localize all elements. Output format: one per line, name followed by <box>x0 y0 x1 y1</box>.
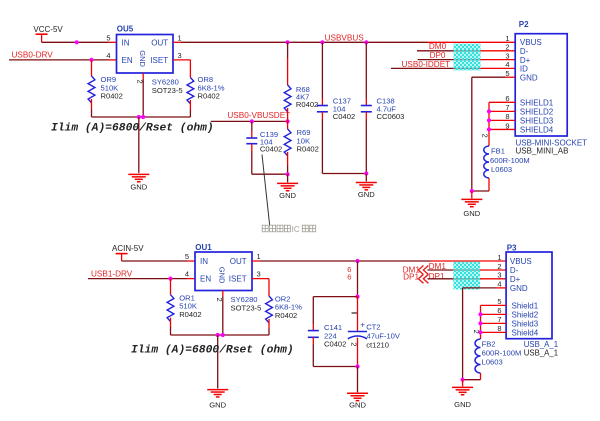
wire shield3 stub <box>489 119 515 121</box>
svg-text:SOT23-5: SOT23-5 <box>231 303 262 312</box>
wire P3 pin4 GND <box>496 287 506 289</box>
ground symbol GND6 <box>347 392 368 394</box>
junction R68/R69 node <box>286 119 290 123</box>
wire USB0-DRV to OU5 EN pin 4 <box>9 59 109 61</box>
svg-text:IC: IC <box>292 225 300 234</box>
bus-entry hatch block P3 <box>453 262 480 290</box>
wire to GND3 <box>365 174 367 182</box>
svg-text:USB0-VBUSDET: USB0-VBUSDET <box>227 111 290 120</box>
bus-entry hatch block P2 <box>454 44 481 71</box>
svg-text:GND: GND <box>520 73 538 82</box>
op-amp style power switch OU5 box <box>117 35 174 74</box>
svg-text:GND: GND <box>510 284 528 293</box>
svg-text:GND: GND <box>130 183 147 192</box>
ground symbol GND7 <box>452 386 473 388</box>
svg-text:2: 2 <box>505 43 509 52</box>
svg-text:GND: GND <box>358 190 375 199</box>
junction OR9 top <box>89 58 93 62</box>
svg-text:1: 1 <box>497 253 501 262</box>
svg-text:USB_MINI_AB: USB_MINI_AB <box>516 147 569 156</box>
svg-text:4: 4 <box>106 51 110 60</box>
svg-text:1: 1 <box>505 34 509 43</box>
wire down to GND <box>138 117 140 173</box>
wire USB0-VBUSDET <box>211 120 288 122</box>
OU5 GND pin 2 wire <box>142 73 144 79</box>
pin 4 stub of OU1 <box>187 278 195 280</box>
svg-text:ID: ID <box>520 65 528 74</box>
svg-text:P2: P2 <box>519 20 529 29</box>
power symbol VCC-5V <box>36 33 48 35</box>
wire FB1 bottom to GND4 <box>472 190 489 192</box>
svg-text:3: 3 <box>505 51 509 60</box>
wire to GND6 <box>357 367 359 393</box>
svg-text:GND: GND <box>217 267 226 284</box>
junction shield2 <box>487 109 491 113</box>
svg-text:DP1: DP1 <box>403 273 419 282</box>
svg-text:1: 1 <box>257 252 261 261</box>
wire C141 top branch <box>313 296 357 298</box>
wire USB0-IDDET to P2 pin 4 <box>391 67 481 69</box>
svg-text:3: 3 <box>257 269 261 278</box>
wire DP0 to P2 pin 3 <box>418 59 481 61</box>
wire down to GND5 <box>217 335 219 389</box>
wire shield bus vertical <box>488 102 490 146</box>
resistor R69 <box>287 121 289 129</box>
svg-text:EN: EN <box>200 274 211 283</box>
ground symbol GND2 <box>277 182 298 184</box>
svg-text:GND: GND <box>463 209 480 218</box>
junction C138 top <box>364 40 368 44</box>
junction ground tap bottom <box>216 333 220 337</box>
svg-text:OU1: OU1 <box>195 243 212 252</box>
svg-text:GND: GND <box>138 50 147 67</box>
junction GND7 <box>461 378 465 382</box>
wire C141 bottom branch <box>313 366 357 368</box>
svg-text:OUT: OUT <box>151 38 168 47</box>
svg-text:DP1: DP1 <box>429 272 445 281</box>
pin 5 stub of OU5 <box>109 41 117 43</box>
junction C139 top <box>250 119 254 123</box>
junction GND3 tap <box>364 171 368 175</box>
svg-text:1: 1 <box>178 33 182 42</box>
svg-text:L0603: L0603 <box>491 165 512 174</box>
junction shield3 <box>487 118 491 122</box>
CT2 pin1 tick <box>352 312 358 314</box>
ground symbol GND1 <box>128 173 149 175</box>
junction C137 top <box>320 40 324 44</box>
junction GND2 tap <box>286 172 290 176</box>
red portion of VBUS rail into P2 pin 1 <box>428 41 516 43</box>
svg-text:Shield2: Shield2 <box>512 311 539 320</box>
svg-text:SHIELD3: SHIELD3 <box>520 117 554 126</box>
svg-text:VBUS: VBUS <box>510 257 532 266</box>
svg-text:SHIELD4: SHIELD4 <box>520 126 554 135</box>
svg-text:OUT: OUT <box>230 257 247 266</box>
pin 3 stub of OU5 ISET <box>173 59 190 61</box>
svg-text:3: 3 <box>497 271 501 280</box>
svg-text:IN: IN <box>122 38 130 47</box>
ferrite bead FB1 <box>484 146 489 178</box>
svg-text:R0402: R0402 <box>275 311 297 320</box>
svg-text:R0402: R0402 <box>101 92 123 101</box>
svg-text:ct1210: ct1210 <box>366 341 389 350</box>
svg-text:2: 2 <box>481 134 490 138</box>
junction R68 top <box>285 40 289 44</box>
wire rail C137-C138 <box>322 173 366 175</box>
junction on IN wire <box>75 40 79 44</box>
resistor R68 <box>287 42 289 58</box>
svg-text:OU5: OU5 <box>117 25 134 34</box>
svg-text:Ilim (A)=6800/Rset (ohm): Ilim (A)=6800/Rset (ohm) <box>51 122 214 134</box>
ground symbol GND4 <box>461 198 482 200</box>
svg-text:R0402: R0402 <box>297 145 319 154</box>
svg-text:600R-100M: 600R-100M <box>490 156 530 165</box>
wire shield2 stub <box>489 110 515 112</box>
resistor OR2 <box>268 279 270 296</box>
capacitor C137 <box>321 42 323 98</box>
capacitor C138 <box>365 42 367 98</box>
wire shield1 stub P3 <box>481 304 507 306</box>
svg-text:IN: IN <box>200 257 208 266</box>
junction CT2 top <box>355 259 359 263</box>
wire CT2 column upper <box>357 261 359 297</box>
svg-text:USB0-IDDET: USB0-IDDET <box>402 60 451 69</box>
svg-text:2: 2 <box>136 80 145 84</box>
svg-text:P3: P3 <box>507 243 517 252</box>
junction C141 branch <box>355 295 359 299</box>
wire P2 pin5 GND <box>505 76 515 78</box>
svg-text:FB1: FB1 <box>491 146 505 155</box>
svg-text:2: 2 <box>472 330 481 334</box>
svg-text:GND: GND <box>349 400 366 409</box>
svg-text:4: 4 <box>505 60 509 69</box>
svg-text:EN: EN <box>122 56 133 65</box>
wire rail C139-R69 <box>252 173 288 175</box>
off-page DM1 chevron <box>418 266 428 275</box>
svg-text:FB2: FB2 <box>482 339 496 348</box>
wire shield3 stub P3 <box>481 322 507 324</box>
svg-text:USB_A_1: USB_A_1 <box>524 349 558 358</box>
svg-text:Shield3: Shield3 <box>512 320 539 329</box>
capacitor C139 <box>251 121 253 131</box>
svg-text:USBVBUS: USBVBUS <box>325 34 365 43</box>
svg-text:Shield1: Shield1 <box>512 302 539 311</box>
off-page DP1 chevron <box>418 274 428 283</box>
svg-text:SOT23-5: SOT23-5 <box>152 86 183 95</box>
polarized capacitor CT2 <box>357 297 359 332</box>
svg-text:600R-100M: 600R-100M <box>482 349 522 358</box>
junction shield3 P3 <box>478 321 482 325</box>
svg-text:Shield4: Shield4 <box>512 329 539 338</box>
wire to GND2 <box>287 174 289 182</box>
annotation text (place near main IC) <box>262 225 268 232</box>
pin 3 stub of OU1 ISET <box>252 278 269 280</box>
wire stub GND7 <box>462 380 464 387</box>
svg-text:SHIELD1: SHIELD1 <box>520 99 554 108</box>
svg-text:5: 5 <box>106 33 110 42</box>
svg-text:D-: D- <box>520 47 529 56</box>
svg-text:+: + <box>360 320 365 330</box>
connector P3 box <box>506 252 552 339</box>
svg-text:R0402: R0402 <box>296 100 318 109</box>
ferrite bead FB2 <box>475 339 480 373</box>
svg-text:VCC-5V: VCC-5V <box>33 25 63 34</box>
annotation pointer line <box>262 155 270 226</box>
junction shield4 <box>487 127 491 131</box>
wire FB2 bottom to GND7 <box>463 379 481 381</box>
svg-text:USB1-DRV: USB1-DRV <box>91 269 133 278</box>
wire shield1 stub <box>489 101 515 103</box>
pin 1 stub of OU5 OUT <box>173 41 181 43</box>
wire ACIN-5V to OU1 IN pin 5 <box>122 260 187 262</box>
svg-text:C0402: C0402 <box>324 340 346 349</box>
wire bottom rail OR1-OR2 <box>171 334 270 336</box>
svg-text:ISET: ISET <box>150 56 168 65</box>
junction GND6 tap <box>355 364 359 368</box>
wire shield2 stub P3 <box>481 313 507 315</box>
svg-text:C0402: C0402 <box>333 112 355 121</box>
power switch OU1 box <box>195 252 252 291</box>
OU1 GND pin 2 wire <box>222 291 224 297</box>
svg-text:D+: D+ <box>510 275 521 284</box>
wire VBUS rail bottom <box>260 260 431 262</box>
svg-text:ISET: ISET <box>229 274 247 283</box>
junction shield2 P3 <box>478 312 482 316</box>
wire bottom rail OR9-OR8 <box>92 116 191 118</box>
svg-text:6: 6 <box>347 273 351 282</box>
svg-text:VBUS: VBUS <box>520 38 542 47</box>
wire shield4 stub P3 <box>481 331 507 333</box>
svg-text:Ilim (A)=6800/Rset (ohm): Ilim (A)=6800/Rset (ohm) <box>131 345 294 357</box>
ground symbol GND5 <box>207 389 228 391</box>
wire DP1 to P3 pin 3 <box>428 278 481 280</box>
svg-text:5: 5 <box>185 252 189 261</box>
svg-text:GND: GND <box>209 401 226 410</box>
svg-text:3: 3 <box>178 51 182 60</box>
svg-text:2: 2 <box>497 262 501 271</box>
svg-text:DP0: DP0 <box>430 51 446 60</box>
svg-text:47uF-10V: 47uF-10V <box>367 332 401 341</box>
svg-text:CT2: CT2 <box>366 323 380 332</box>
resistor OR9 <box>91 60 93 76</box>
wire VCC-5V to OU5 IN pin 5 <box>42 41 109 43</box>
svg-text:GND: GND <box>454 400 471 409</box>
wire shield4 stub <box>489 128 515 130</box>
wire stub GND4 <box>471 191 473 198</box>
svg-text:2: 2 <box>350 342 359 346</box>
junction OR1 top <box>168 277 172 281</box>
svg-text:C0402: C0402 <box>260 145 282 154</box>
wire USB1-DRV to OU1 EN pin 4 <box>88 278 187 280</box>
junction GND4 <box>470 189 474 193</box>
svg-text:R0402: R0402 <box>179 310 201 319</box>
svg-text:D-: D- <box>510 266 519 275</box>
wire shield bus vertical P3 <box>480 305 482 339</box>
red portion of rail into P3 pin 1 <box>431 260 507 262</box>
pin 5 stub of OU1 <box>187 260 195 262</box>
svg-text:USB0-DRV: USB0-DRV <box>12 51 54 60</box>
resistor OR8 <box>189 60 191 78</box>
junction shield4 P3 <box>478 330 482 334</box>
connector P2 box <box>515 34 567 136</box>
wire DM0 to P2 pin 2 <box>417 50 481 52</box>
svg-text:SHIELD2: SHIELD2 <box>520 108 554 117</box>
pin 1 stub of OU1 OUT <box>252 260 260 262</box>
pin 4 stub of OU5 <box>109 59 117 61</box>
svg-text:4: 4 <box>185 270 189 279</box>
junction ground tap <box>137 115 141 119</box>
svg-text:ACIN-5V: ACIN-5V <box>112 244 144 253</box>
wire DM1 to P3 pin 2 <box>428 269 481 271</box>
svg-text:D+: D+ <box>520 56 531 65</box>
wire USBVBUS rail <box>181 41 428 43</box>
svg-text:L0603: L0603 <box>482 358 503 367</box>
resistor OR1 <box>170 279 172 295</box>
svg-text:CC0603: CC0603 <box>377 112 405 121</box>
svg-text:DM0: DM0 <box>429 42 447 51</box>
ground symbol GND3 <box>356 182 377 184</box>
capacitor C141 <box>312 297 314 324</box>
svg-text:GND: GND <box>279 191 296 200</box>
power symbol ACIN-5V <box>116 253 128 255</box>
svg-text:2: 2 <box>215 298 224 302</box>
svg-text:R0402: R0402 <box>198 92 220 101</box>
